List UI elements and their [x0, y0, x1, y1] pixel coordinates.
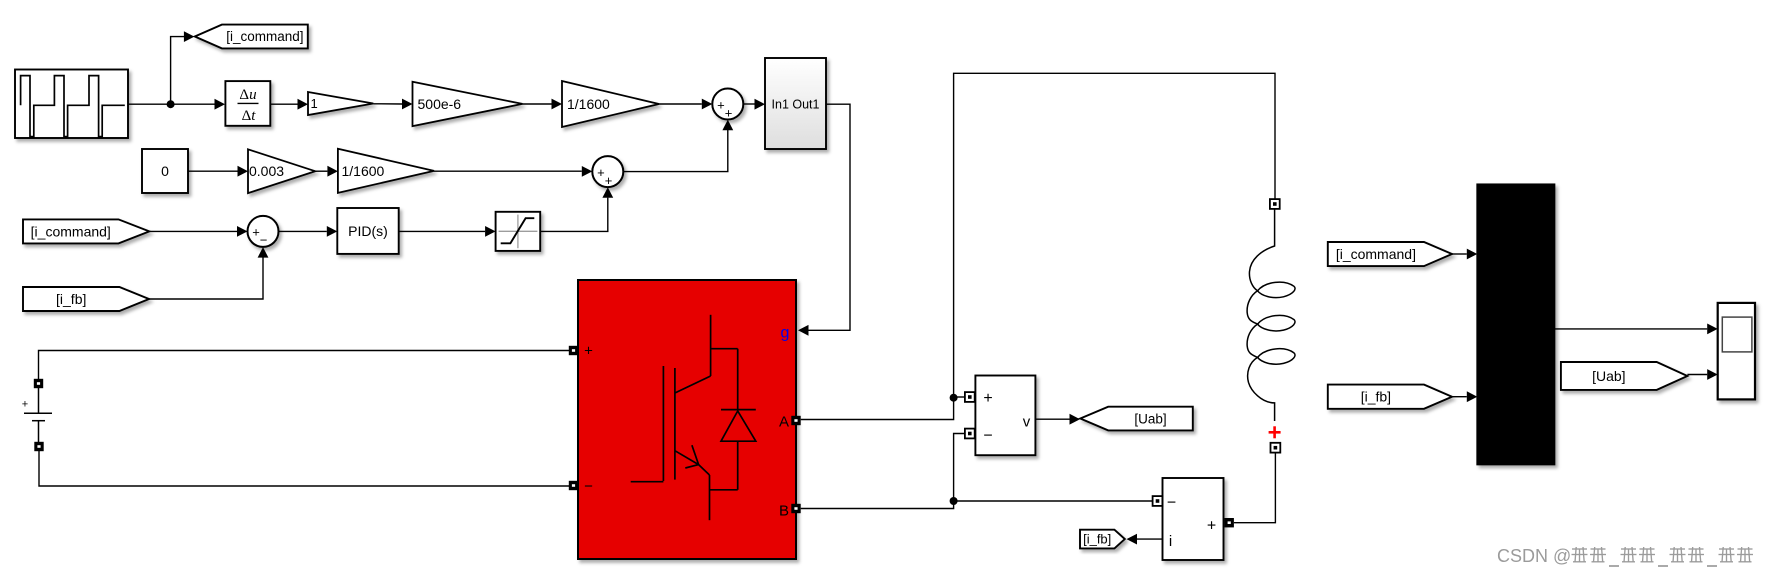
goto tag [i_command] [195, 25, 308, 49]
svg-text:+: + [584, 343, 593, 360]
wire gain 500e-6 to gain 1/1600 [522, 103, 551, 105]
svg-text:+: + [252, 225, 260, 240]
svg-text:0: 0 [161, 163, 169, 179]
wire bridge A to measure node [801, 398, 954, 420]
saturation block [496, 212, 541, 251]
bridge + port [569, 346, 578, 355]
goto tag [Uab] [1080, 407, 1193, 431]
svg-text:[i_fb]: [i_fb] [1361, 389, 1391, 405]
from tag [i_command] row3 [23, 219, 149, 243]
battery positive port [34, 379, 43, 388]
sum junction S2 (+ +) [592, 156, 623, 187]
svg-text:[i_command]: [i_command] [226, 29, 303, 44]
IGBT half-bridge subsystem (red) [578, 280, 796, 559]
svg-text:0.003: 0.003 [249, 163, 284, 179]
svg-text:v: v [1023, 414, 1031, 431]
red plus selection marker [1269, 426, 1281, 438]
svg-text:[i_fb]: [i_fb] [56, 291, 86, 307]
svg-text:PID(s): PID(s) [348, 223, 388, 239]
wire from tag to sum3 [149, 230, 237, 232]
wire node B to voltage measurement - [954, 434, 965, 502]
wire bridge B to node B [801, 501, 954, 509]
svg-text:g: g [781, 325, 790, 342]
svg-text:[i_fb]: [i_fb] [1083, 532, 1111, 547]
svg-text:[i_command]: [i_command] [1336, 246, 1416, 262]
sum junction S3 (+ -) [248, 216, 279, 247]
goto tag [i_fb] [1080, 530, 1125, 549]
series RLC branch inductor coil [1247, 209, 1274, 421]
wire derivative to gain 1 [270, 103, 297, 105]
svg-text:+: + [983, 390, 992, 407]
bridge B port [791, 504, 800, 513]
svg-text:[Uab]: [Uab] [1134, 411, 1166, 426]
wire battery minus to bridge - [39, 451, 569, 486]
node A junction [950, 394, 958, 402]
from tag [i_fb] row4 [23, 287, 149, 311]
node B junction [950, 497, 958, 505]
gain 1/1600 second row [338, 149, 434, 193]
svg-text:CSDN @: CSDN @ [1497, 546, 1571, 566]
current measurement + port [1225, 518, 1234, 527]
voltage measurement block [975, 376, 1035, 456]
svg-text:A: A [779, 414, 789, 431]
svg-text:Δu: Δu [239, 87, 256, 103]
battery negative port [34, 442, 43, 451]
black subsystem block [1477, 184, 1554, 464]
from tag [Uab] right [1561, 362, 1688, 390]
DC voltage source battery symbol [24, 388, 52, 442]
svg-text:+: + [605, 173, 613, 188]
svg-text:[i_command]: [i_command] [31, 223, 111, 239]
wire black block output to scope [1554, 328, 1707, 330]
current measurement block [1163, 478, 1224, 560]
PID controller block [337, 208, 398, 254]
wire i_fb to sum3 bottom [149, 257, 263, 299]
svg-text:−: − [1167, 495, 1176, 512]
svg-text:500e-6: 500e-6 [418, 96, 462, 112]
svg-text:+: + [717, 97, 725, 112]
from tag [i_fb] right [1328, 385, 1452, 409]
wire Uab to scope [1687, 374, 1707, 376]
svg-text:−: − [983, 428, 992, 445]
svg-text:Δt: Δt [242, 108, 257, 124]
wire i_command to subsystem [1452, 253, 1467, 255]
constant block 0 [142, 149, 188, 193]
inductor top port [1270, 199, 1280, 209]
wire pulse generator output [128, 103, 215, 105]
bridge - port [569, 481, 578, 490]
svg-text:+: + [725, 105, 733, 120]
voltage measurement + port [965, 392, 975, 402]
scope block [1718, 303, 1755, 400]
gain 500e-6 [413, 82, 523, 126]
svg-text:i: i [1169, 533, 1172, 550]
IGBT symbol inside bridge [631, 315, 738, 520]
wire i output to goto i_fb [1137, 538, 1163, 540]
node junction after pulse generator [167, 100, 175, 108]
wire saturation to sum2 bottom [540, 198, 608, 232]
svg-text:+: + [22, 398, 28, 410]
wire node A up and over to inductor [954, 73, 1275, 397]
subsystem block In1 Out1 [765, 58, 826, 149]
pulse generator source block [15, 70, 128, 139]
svg-text:−: − [260, 233, 268, 248]
wire battery plus to bridge + [39, 351, 570, 380]
wire gain 0.003 to gain 1/1600 second [315, 170, 327, 172]
svg-text:[Uab]: [Uab] [1592, 368, 1625, 384]
wire node A to voltage measurement + [954, 396, 965, 398]
svg-text:In1 Out1: In1 Out1 [772, 98, 820, 112]
voltage measurement - port [965, 429, 975, 439]
wire sum1 to subsystem In1 [743, 103, 754, 105]
svg-text:1/1600: 1/1600 [567, 96, 610, 112]
wire inductor bottom to current measurement + [1234, 453, 1275, 523]
sum junction S1 (+ +) [712, 89, 743, 120]
current measurement - port [1153, 496, 1163, 506]
anti-parallel diode inside bridge [721, 349, 756, 490]
gain 1 [308, 92, 373, 115]
watermark CJK text imitation [1572, 547, 1588, 562]
wire node B to current measurement - [954, 500, 1153, 502]
svg-text:+: + [1207, 518, 1216, 535]
gain 0.003 [248, 149, 315, 193]
wire PID to saturation [399, 230, 485, 232]
wire sum1 bottom input from sum2 [608, 130, 728, 172]
wire subsystem Out1 to gate g of bridge [808, 104, 850, 330]
wire gain 1 to gain 500e-6 [373, 103, 402, 105]
svg-text:+: + [597, 165, 605, 180]
svg-text:1/1600: 1/1600 [342, 163, 385, 179]
gain 1/1600 top row [562, 81, 659, 127]
svg-text:B: B [779, 503, 789, 520]
wire v output to goto Uab [1035, 418, 1070, 420]
svg-text:1: 1 [311, 96, 318, 111]
bridge A port [791, 416, 800, 425]
wire sum3 to PID [279, 230, 327, 232]
from tag [i_command] right [1328, 242, 1452, 266]
inductor bottom port [1271, 443, 1281, 453]
wire gain 1/1600 to sum1 [659, 103, 702, 105]
wire i_fb to subsystem [1452, 396, 1467, 398]
svg-text:−: − [584, 478, 593, 495]
wire gain 1/1600 to sum2 [434, 170, 582, 172]
wire constant to gain 0.003 [188, 170, 238, 172]
derivative block du/dt [225, 81, 270, 126]
wire junction up to goto i_command [171, 37, 185, 105]
